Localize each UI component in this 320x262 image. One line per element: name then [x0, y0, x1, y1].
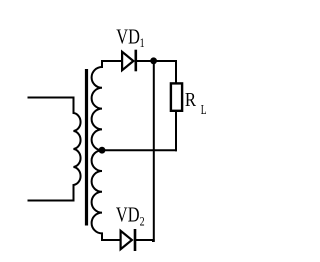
- inductor secondary lower half: [92, 150, 102, 241]
- wire VD2 cathode to output rail: [136, 239, 155, 241]
- node center tap: [99, 147, 106, 154]
- diode VD1: [122, 50, 136, 72]
- diode VD2: [121, 229, 135, 251]
- svg-text:R: R: [185, 89, 197, 111]
- resistor RL: [171, 83, 182, 110]
- inductor secondary upper half: [92, 60, 102, 150]
- wire VD1 cathode to top-right corner: [137, 60, 177, 62]
- svg-text:VD: VD: [116, 24, 140, 48]
- wire RL top lead: [175, 60, 177, 83]
- inductor primary winding T1: [74, 97, 81, 202]
- wire RL bottom lead: [175, 112, 177, 151]
- wire secondary bottom to VD2 anode: [101, 239, 121, 241]
- wire output rail from VD1 cathode to VD2 cathode: [152, 61, 154, 241]
- wire top primary input stub: [28, 97, 74, 99]
- svg-text:VD: VD: [116, 203, 140, 227]
- wire bottom primary input stub: [28, 200, 74, 202]
- svg-text:2: 2: [140, 214, 145, 228]
- transformer core: [85, 69, 88, 226]
- wire center tap to RL bottom: [102, 149, 177, 151]
- svg-text:L: L: [201, 103, 207, 118]
- svg-text:1: 1: [140, 36, 145, 50]
- wire secondary top to VD1 anode: [101, 60, 122, 62]
- node VD1 cathode junction: [150, 57, 157, 64]
